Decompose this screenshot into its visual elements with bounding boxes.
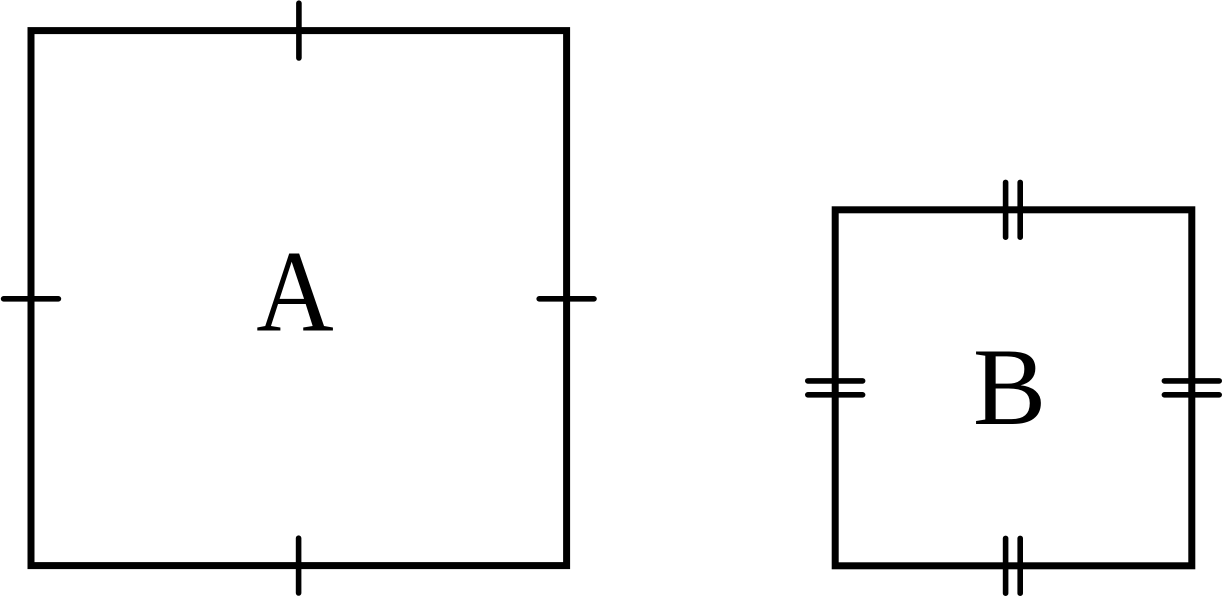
square B xyxy=(835,210,1192,566)
double tick bottom of square B (right stroke) xyxy=(1017,538,1023,593)
tick top of square A xyxy=(296,3,302,58)
svg-text:A: A xyxy=(256,227,334,356)
double tick bottom of square B (left stroke) xyxy=(1003,538,1009,593)
tick left of square A xyxy=(4,296,59,302)
tick bottom of square A xyxy=(296,538,302,593)
double tick right of square B (lower stroke) xyxy=(1164,392,1219,398)
double tick left of square B (lower stroke) xyxy=(808,392,863,398)
double tick left of square B (upper stroke) xyxy=(808,378,863,384)
double tick top of square B (left stroke) xyxy=(1003,182,1009,237)
square A xyxy=(31,31,567,566)
tick right of square A xyxy=(539,296,594,302)
double tick right of square B (upper stroke) xyxy=(1164,378,1219,384)
double tick top of square B (right stroke) xyxy=(1017,182,1023,237)
svg-text:B: B xyxy=(973,326,1046,448)
